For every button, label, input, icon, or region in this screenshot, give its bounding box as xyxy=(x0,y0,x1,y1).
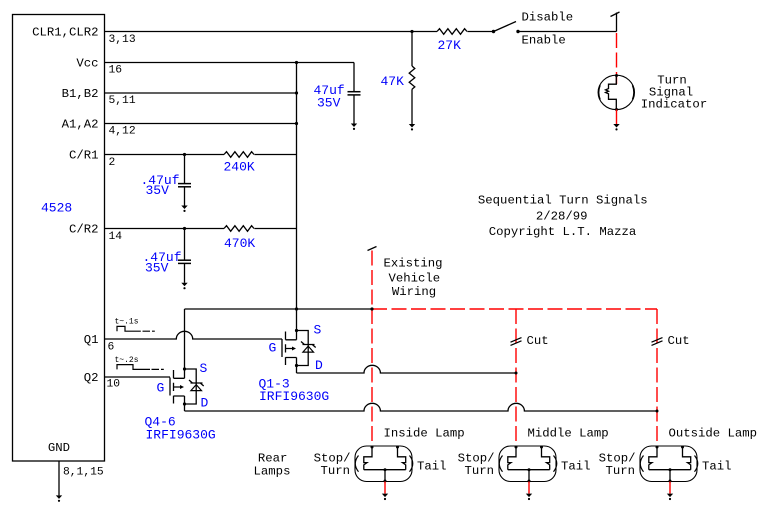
svg-text:Cut: Cut xyxy=(527,334,549,348)
pin number 16 xyxy=(109,65,123,77)
wire Q4-6 source riser xyxy=(184,309,186,369)
pin number 14 xyxy=(109,231,123,243)
transistor Q1-3 IRFI9630G body xyxy=(282,331,297,366)
wire pin 2 C/R1 xyxy=(105,154,224,156)
svg-text:C/R2: C/R2 xyxy=(69,223,99,237)
svg-text:240K: 240K xyxy=(224,159,255,174)
27K value xyxy=(438,38,462,53)
svg-text:Inside Lamp: Inside Lamp xyxy=(384,427,465,441)
svg-text:B1,B2: B1,B2 xyxy=(62,87,99,101)
svg-text:Outside Lamp: Outside Lamp xyxy=(669,427,758,441)
transistor Q4-6 IRFI9630G source dot xyxy=(183,367,186,370)
resistor 27K xyxy=(437,29,467,35)
wire pin 14 C/R2 xyxy=(105,228,224,230)
inside lamp common wire xyxy=(364,468,406,482)
svg-text:5,11: 5,11 xyxy=(109,95,136,107)
svg-text:27K: 27K xyxy=(438,38,462,53)
label Turn Signal Indicator xyxy=(641,74,707,112)
outside lamp ground xyxy=(667,494,673,501)
waveform Q1 pulse xyxy=(117,326,155,331)
svg-text:4,12: 4,12 xyxy=(109,126,136,138)
transistor Q1-3 IRFI9630G body diode xyxy=(297,331,316,366)
C1 value 47uf 35V xyxy=(314,83,345,111)
middle lamp common wire xyxy=(508,468,550,482)
wire 27K to switch xyxy=(467,31,493,33)
label Outside Lamp xyxy=(669,427,758,441)
junction bus to supply xyxy=(295,307,298,310)
svg-text:Lamps: Lamps xyxy=(254,465,291,479)
junction middle lamp cut-in xyxy=(515,372,518,375)
label Enable xyxy=(522,33,566,47)
inside lamp bulb outline xyxy=(355,446,412,482)
pin name CLR1,CLR2 xyxy=(32,26,98,40)
svg-text:35V: 35V xyxy=(146,183,170,198)
47K value xyxy=(381,74,405,89)
wire R2 to bus xyxy=(254,228,296,230)
cut mark outside lamp xyxy=(652,338,663,346)
wire Q4-6 drain to outside lamp xyxy=(185,403,658,411)
waveform label t~.2s xyxy=(115,356,139,365)
svg-text:35V: 35V xyxy=(145,261,169,276)
label Cut (outside) xyxy=(668,334,690,348)
label Inside Lamp xyxy=(384,427,465,441)
Q1-3 source label S xyxy=(314,323,322,338)
label Disable xyxy=(522,11,574,25)
inside lamp ground xyxy=(382,494,388,501)
wire C2 to ground xyxy=(184,187,186,205)
transistor Q1-3 IRFI9630G drain dot xyxy=(295,364,298,367)
resistor 47K xyxy=(409,66,415,89)
middle lamp stop/turn filament xyxy=(508,446,518,470)
junction 47K tap xyxy=(410,30,413,33)
wire 3,13 to 47K xyxy=(411,32,413,67)
middle lamp ground wire (red) xyxy=(528,482,530,494)
waveform label t~.1s xyxy=(115,318,139,327)
svg-text:G: G xyxy=(157,381,165,396)
wire supply node horizontal xyxy=(185,308,373,310)
pin name GND xyxy=(48,441,70,455)
transistor Q4-6 IRFI9630G body diode xyxy=(185,369,204,404)
ground indicator xyxy=(613,124,619,130)
wire pin 16 Vcc xyxy=(105,62,354,64)
pin name A1,A2 xyxy=(62,118,99,132)
pin number 4,12 xyxy=(109,126,136,138)
svg-text:Disable: Disable xyxy=(522,11,574,25)
junction inside lamp feed xyxy=(370,307,373,310)
middle lamp bulb outline xyxy=(499,446,556,482)
indicator feed tick xyxy=(611,12,620,17)
outside lamp bulb outline xyxy=(640,446,697,482)
switch SW1 throw contact xyxy=(516,30,519,33)
svg-text:IRFI9630G: IRFI9630G xyxy=(146,427,216,442)
outside lamp tail filament xyxy=(681,446,691,470)
capacitor C1 47uf xyxy=(348,92,361,95)
svg-text:Rear: Rear xyxy=(258,451,288,465)
svg-text:Sequential Turn Signals: Sequential Turn Signals xyxy=(478,194,648,208)
indicator right paren terminal xyxy=(632,85,633,99)
svg-text:Existing: Existing xyxy=(383,257,442,271)
svg-text:Vcc: Vcc xyxy=(76,57,98,71)
red wire middle-lamp vertical xyxy=(515,309,517,447)
C3 value .47uf 35V xyxy=(143,250,182,276)
svg-text:Turn: Turn xyxy=(464,464,494,478)
transistor Q4-6 IRFI9630G drain dot xyxy=(183,402,186,405)
indicator feed stub xyxy=(616,13,618,32)
label Cut (middle) xyxy=(527,334,549,348)
pin name Q1 xyxy=(84,333,99,347)
pin number 6 xyxy=(108,341,115,353)
existing wiring feed tick (inside lamp line) xyxy=(368,247,377,251)
Q4-6 drain label D xyxy=(201,396,209,411)
wire C1 to ground xyxy=(353,96,355,124)
pin number 3,13 xyxy=(109,34,136,46)
pin name Vcc xyxy=(76,57,98,71)
switch SW1 blade xyxy=(494,22,517,32)
ground IC xyxy=(56,495,62,502)
junction A bus xyxy=(295,122,298,125)
inside lamp right paren terminal xyxy=(410,456,413,472)
svg-text:t~.2s: t~.2s xyxy=(115,356,139,365)
svg-text:Enable: Enable xyxy=(522,33,566,47)
svg-text:Tail: Tail xyxy=(702,460,732,474)
wire 47K to ground xyxy=(411,89,413,124)
wire pin 10 Q2 to gate xyxy=(105,376,170,378)
svg-text:Turn: Turn xyxy=(320,464,350,478)
outside lamp common wire xyxy=(649,468,691,482)
pin number 8,1,15 xyxy=(63,466,104,478)
outside lamp ground wire (red) xyxy=(669,482,671,494)
label Rear Lamps xyxy=(254,451,291,478)
pin name C/R1 xyxy=(69,149,99,163)
turn signal indicator bulb xyxy=(598,75,634,109)
inside lamp Stop/Turn label xyxy=(314,452,351,479)
svg-text:16: 16 xyxy=(109,65,123,77)
Q1-3 drain label D xyxy=(315,358,323,373)
svg-text:Cut: Cut xyxy=(668,334,690,348)
wire pins 3,13 xyxy=(105,31,437,33)
transistor Q4-6 IRFI9630G body xyxy=(170,369,185,404)
svg-text:10: 10 xyxy=(107,379,121,391)
junction outside lamp cut-in xyxy=(656,410,659,413)
indicator ground wire (red) xyxy=(616,110,618,125)
svg-text:Copyright L.T. Mazza: Copyright L.T. Mazza xyxy=(489,225,637,239)
indicator filament xyxy=(606,74,619,111)
outside lamp stop/turn filament xyxy=(649,446,659,470)
svg-text:470K: 470K xyxy=(224,236,255,251)
outside lamp Stop/Turn label xyxy=(599,452,636,479)
cut mark middle lamp xyxy=(511,338,522,346)
svg-text:C/R1: C/R1 xyxy=(69,149,99,163)
wire C3 to ground xyxy=(184,264,186,283)
resistor R2 470K xyxy=(224,226,254,232)
outside lamp right paren terminal xyxy=(695,456,698,472)
ground C2 xyxy=(181,206,187,212)
label Middle Lamp xyxy=(528,427,609,441)
svg-text:3,13: 3,13 xyxy=(109,34,136,46)
svg-text:47K: 47K xyxy=(381,74,405,89)
junction C3 tap xyxy=(183,227,186,230)
wire Q1-3 drain to middle lamp xyxy=(297,365,517,373)
R1 value 240K xyxy=(224,159,255,174)
wire C/R2 to C3 xyxy=(184,229,186,260)
wire Vcc to C1 xyxy=(353,63,355,92)
transistor Q1-3 IRFI9630G source dot xyxy=(295,329,298,332)
Q4-6 source label S xyxy=(200,361,208,376)
pin number 2 xyxy=(109,157,116,169)
svg-text:Wiring: Wiring xyxy=(392,285,436,299)
red wire horizontal bus xyxy=(372,308,657,310)
red wire inside-lamp vertical xyxy=(371,251,373,447)
inside lamp left paren terminal xyxy=(355,456,358,472)
ground C3 xyxy=(181,283,187,290)
svg-text:Tail: Tail xyxy=(417,460,447,474)
pin name B1,B2 xyxy=(62,87,99,101)
svg-text:t~.1s: t~.1s xyxy=(115,318,139,327)
svg-text:A1,A2: A1,A2 xyxy=(62,118,99,132)
svg-text:35V: 35V xyxy=(317,96,341,111)
inside lamp Tail label xyxy=(417,460,447,474)
svg-text:2/28/99: 2/28/99 xyxy=(536,209,588,223)
R2 value 470K xyxy=(224,236,255,251)
svg-text:S: S xyxy=(314,323,322,338)
wire R1 to bus xyxy=(254,154,296,156)
middle lamp Tail label xyxy=(561,460,591,474)
svg-text:S: S xyxy=(200,361,208,376)
waveform Q2 pulse xyxy=(117,365,164,370)
IC value 4528 xyxy=(41,201,72,216)
svg-text:Indicator: Indicator xyxy=(641,98,707,112)
wire GND pins 8,1,15 xyxy=(58,461,60,495)
red wire outside-lamp vertical xyxy=(656,309,658,447)
svg-text:IRFI9630G: IRFI9630G xyxy=(259,389,329,404)
svg-text:Vehicle: Vehicle xyxy=(388,271,440,285)
IC U1 4528 outline xyxy=(13,15,105,462)
wire pin 6 Q1 to gate xyxy=(105,331,282,339)
svg-text:D: D xyxy=(201,396,209,411)
svg-text:Turn: Turn xyxy=(605,464,635,478)
label Existing Vehicle Wiring xyxy=(383,257,442,299)
Q4-6 reference label xyxy=(145,414,216,442)
middle lamp Stop/Turn label xyxy=(458,452,495,479)
resistor R1 240K xyxy=(224,152,254,158)
svg-text:4528: 4528 xyxy=(41,201,72,216)
svg-text:Middle Lamp: Middle Lamp xyxy=(528,427,609,441)
svg-text:Tail: Tail xyxy=(561,460,591,474)
junction C2 tap xyxy=(183,153,186,156)
middle lamp left paren terminal xyxy=(499,456,502,472)
pin number 10 xyxy=(107,379,121,391)
outside lamp Tail label xyxy=(702,460,732,474)
middle lamp ground xyxy=(526,494,532,501)
junction Vcc bus xyxy=(295,61,298,64)
svg-text:6: 6 xyxy=(108,341,115,353)
indicator left paren terminal xyxy=(599,85,600,99)
red wire indicator vertical xyxy=(616,33,618,84)
middle lamp tail filament xyxy=(540,446,550,470)
capacitor C3 .47uf xyxy=(178,260,191,263)
outside lamp left paren terminal xyxy=(640,456,643,472)
inside lamp ground wire (red) xyxy=(384,482,386,494)
ground C1 xyxy=(351,124,357,131)
pin name Q2 xyxy=(84,371,99,385)
wire switch to indicator feed xyxy=(518,31,617,33)
wire C/R1 to C2 xyxy=(184,155,186,184)
switch SW1 pole xyxy=(492,30,495,33)
C2 value .47uf 35V xyxy=(141,173,180,198)
svg-text:14: 14 xyxy=(109,231,123,243)
wire pins 5,11 B1,B2 xyxy=(105,92,297,94)
pin name C/R2 xyxy=(69,223,99,237)
svg-text:2: 2 xyxy=(109,157,116,169)
capacitor C2 .47uf xyxy=(178,184,191,187)
junction B bus xyxy=(295,91,298,94)
svg-text:G: G xyxy=(269,341,277,356)
svg-text:D: D xyxy=(315,358,323,373)
Q1-3 reference label xyxy=(259,376,330,404)
middle lamp right paren terminal xyxy=(554,456,557,472)
svg-text:Q1: Q1 xyxy=(84,333,99,347)
bus Vcc vertical xyxy=(296,63,298,331)
wire pins 4,12 A1,A2 xyxy=(105,123,297,125)
inside lamp tail filament xyxy=(396,446,406,470)
ground 47K xyxy=(409,124,415,130)
svg-text:8,1,15: 8,1,15 xyxy=(63,466,104,478)
pin number 5,11 xyxy=(109,95,136,107)
inside lamp stop/turn filament xyxy=(364,446,374,470)
title block xyxy=(478,194,648,239)
svg-text:GND: GND xyxy=(48,441,70,455)
Q4-6 gate label G xyxy=(157,381,165,396)
svg-text:CLR1,CLR2: CLR1,CLR2 xyxy=(32,26,98,40)
svg-text:Q2: Q2 xyxy=(84,371,99,385)
Q1-3 gate label G xyxy=(269,341,277,356)
